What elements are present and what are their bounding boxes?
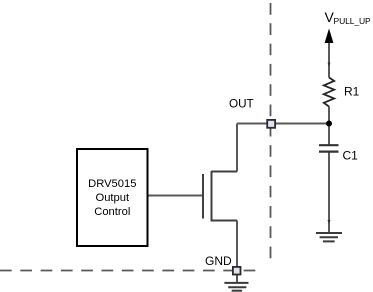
svg-text:GND: GND: [205, 254, 232, 268]
svg-text:R1: R1: [344, 85, 360, 99]
svg-text:OUT: OUT: [229, 98, 254, 111]
svg-text:PULL_UP: PULL_UP: [334, 16, 372, 26]
svg-text:Control: Control: [94, 206, 130, 218]
svg-text:Output: Output: [96, 192, 130, 204]
svg-text:DRV5015: DRV5015: [88, 178, 136, 190]
svg-text:C1: C1: [343, 149, 359, 163]
